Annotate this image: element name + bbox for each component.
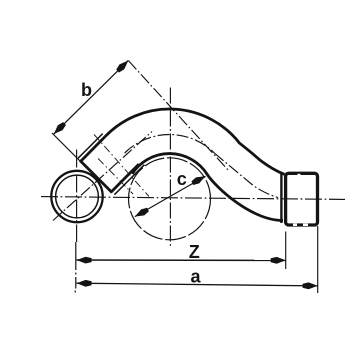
mouth extension line for b [52,133,81,162]
sleeve lower bead line [114,165,144,195]
pipe centerline right tail [214,153,278,198]
svg-text:c: c [177,169,187,189]
mouth miter centerline [98,159,133,195]
c upper-right arrowhead [191,176,205,185]
hump vertical centerline [169,88,171,249]
a right extension line [317,226,319,293]
Z right extension line [285,232,287,270]
left extension line for Z and a [75,242,77,289]
a dimension line [77,283,318,286]
horizontal main centerline [41,197,345,200]
sleeve lower edge [111,164,139,192]
dimension b lower arrowhead [54,122,66,134]
sleeve upper bead line [78,134,103,159]
socket outer circle [51,171,102,222]
svg-text:b: b [81,80,92,100]
Z dimension line [77,259,286,261]
Z left arrowhead [77,257,92,264]
bottom outline: hump inner arc and right descent [132,154,283,221]
c lower-left arrowhead [135,208,149,217]
apex miter centerline (upper extension for b) [128,61,229,172]
tangency radius centerline [94,135,149,197]
a left arrowhead [77,280,92,287]
socket mouth edge [80,161,112,193]
pipe centerline arc [125,135,215,154]
top outline: sleeve upper edge, hump outer arc, right descent [81,109,285,174]
clearance circle c [129,158,211,240]
pipe end shoulder [280,174,282,223]
Z right arrowhead [271,257,286,264]
svg-text:a: a [190,267,201,287]
c diameter line [135,176,206,217]
dimension b upper arrowhead [116,61,128,73]
a right arrowhead [303,282,318,289]
dimension b line [54,61,129,135]
socket inner circle [56,175,99,218]
socket axis centerline [53,132,152,221]
svg-text:Z: Z [189,242,200,262]
threaded end rectangle [286,173,318,225]
rectangle bottom edge scan nicks [293,224,297,226]
socket vertical centerline [76,150,78,243]
